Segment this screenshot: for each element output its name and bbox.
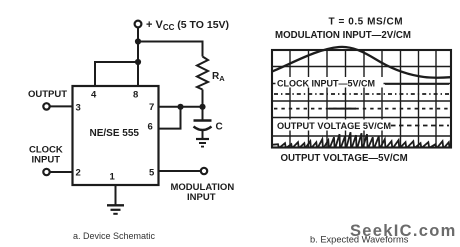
pin 3 label [76, 102, 81, 113]
svg-text:6: 6 [148, 122, 153, 133]
svg-text:2: 2 [76, 168, 81, 179]
pin 6 label [148, 122, 153, 133]
waveform clock dashed row 2 [274, 108, 450, 110]
waveform modulation sine [272, 47, 451, 78]
label OUTPUT VOLTAGE -5V/CM [281, 153, 408, 164]
svg-text:CLOCK INPUT—5V/CM: CLOCK INPUT—5V/CM [277, 79, 375, 89]
pin 1 label [110, 172, 116, 183]
wire pin2 [50, 171, 73, 173]
label C [216, 122, 223, 133]
svg-text:INPUT: INPUT [32, 154, 61, 165]
svg-text:MODULATION INPUT—2V/CM: MODULATION INPUT—2V/CM [275, 30, 411, 41]
logo SeekIC.com [350, 222, 457, 240]
svg-text:C: C [216, 122, 223, 133]
svg-text:SeekIC.com: SeekIC.com [350, 222, 457, 240]
terminal CLOCK INPUT [43, 169, 49, 175]
label OUTPUT [28, 89, 67, 100]
label CLOCK INPUT 5V/CM [276, 77, 384, 89]
svg-text:OUTPUT VOLTAGE 5V/CM: OUTPUT VOLTAGE 5V/CM [277, 121, 391, 131]
label MODULATION INPUT 2V/CM [275, 30, 411, 41]
junction dot cap node [199, 104, 205, 110]
label RA [212, 71, 225, 83]
svg-text:4: 4 [91, 90, 97, 101]
label T = 0.5 MS/CM [329, 17, 404, 28]
terminal MODULATION INPUT [201, 168, 207, 174]
scope graticule [272, 50, 451, 148]
wire pin7 node [159, 106, 203, 108]
ground (capacitor) [196, 139, 209, 147]
svg-text:1: 1 [110, 172, 116, 183]
junction dot pin7 node [177, 104, 183, 110]
svg-text:NE/SE 555: NE/SE 555 [90, 128, 140, 139]
svg-text:OUTPUT VOLTAGE—5V/CM: OUTPUT VOLTAGE—5V/CM [281, 153, 408, 164]
wire pin6 loop [159, 107, 181, 129]
svg-text:T = 0.5 MS/CM: T = 0.5 MS/CM [329, 17, 404, 28]
pin 8 label [133, 90, 138, 101]
label MODULATION INPUT [171, 182, 235, 203]
Vcc terminal [135, 21, 142, 28]
caption a. Device Schematic [73, 231, 156, 241]
svg-text:7: 7 [149, 102, 154, 113]
wire cap stub [202, 107, 204, 120]
pin 5 label [149, 168, 155, 179]
wire pin5 [159, 170, 201, 172]
label CLOCK INPUT [29, 144, 63, 165]
waveform clock dashed row 1 [274, 93, 450, 95]
label NE/SE 555 [90, 128, 140, 139]
wire pin3 [50, 105, 73, 107]
junction dot Vcc/RA [135, 38, 141, 44]
capacitor C [194, 121, 212, 139]
label +Vcc (5 TO 15V) [146, 19, 229, 32]
label OUTPUT VOLTAGE 5V/CM [276, 120, 392, 132]
wire Vcc vertical [137, 28, 139, 86]
svg-text:OUTPUT: OUTPUT [28, 89, 67, 100]
caption b. Expected Waveforms [310, 235, 409, 245]
pin 4 label [91, 90, 97, 101]
ground (pin1) [107, 205, 124, 214]
pin 2 label [76, 168, 81, 179]
clock level line [385, 83, 449, 85]
svg-text:5: 5 [149, 168, 155, 179]
svg-text:8: 8 [133, 90, 138, 101]
svg-text:a. Device Schematic: a. Device Schematic [73, 231, 156, 241]
waveform output sawtooth [273, 132, 451, 147]
wire to RA top [138, 42, 203, 57]
junction dot pin4 loop [135, 59, 141, 65]
IC U1 NE/SE 555 timer box [73, 86, 159, 185]
wire RA bottom [202, 90, 204, 108]
pin 7 label [149, 102, 154, 113]
svg-text:3: 3 [76, 102, 81, 113]
svg-text:+ VCC (5 TO 15V): + VCC (5 TO 15V) [146, 19, 229, 32]
output level dashes [391, 125, 449, 127]
terminal OUTPUT [43, 103, 49, 109]
wire pin1 [115, 185, 117, 205]
wire pin4 loop [95, 62, 138, 86]
resistor RA [197, 57, 208, 90]
svg-text:INPUT: INPUT [187, 192, 216, 203]
